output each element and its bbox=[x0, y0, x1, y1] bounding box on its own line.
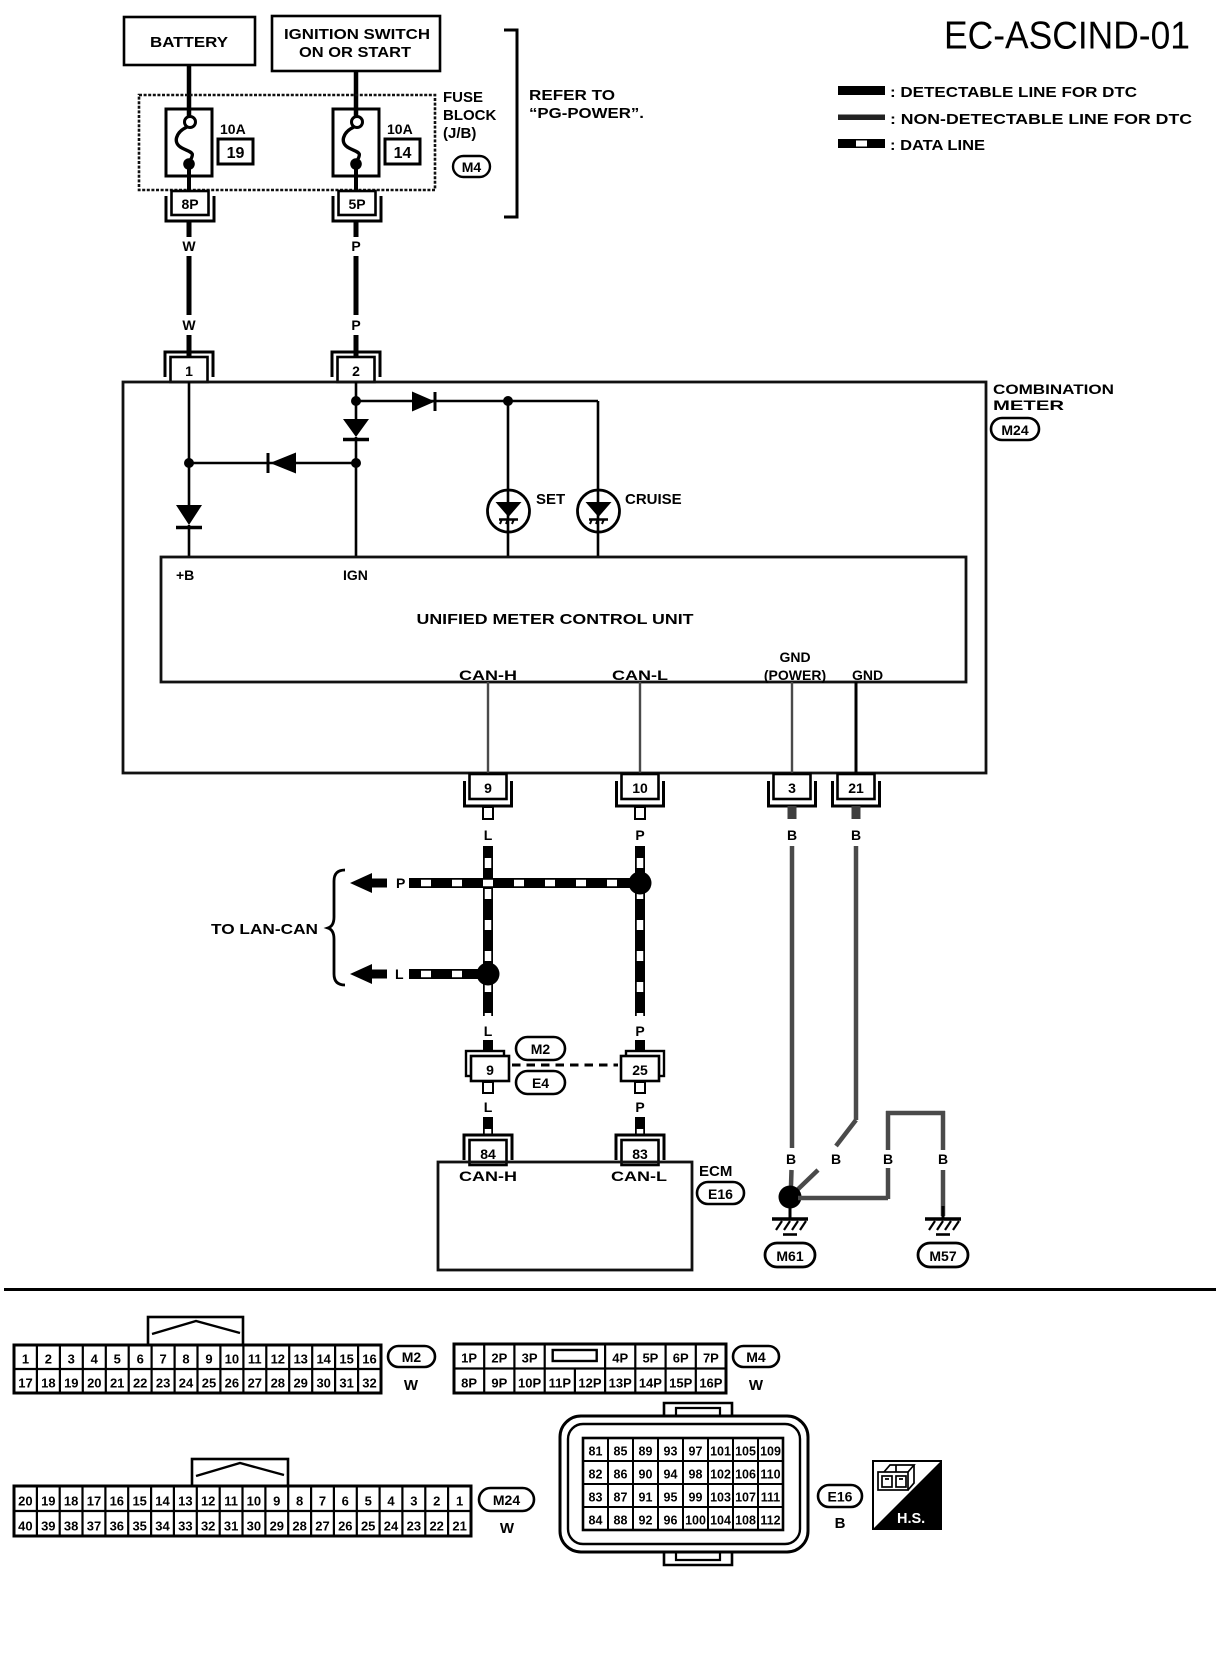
connector terminal 84 bbox=[464, 1135, 512, 1160]
ground symbol M61 bbox=[789, 1206, 792, 1218]
node junction IGN top bbox=[351, 396, 361, 406]
svg-text:40: 40 bbox=[18, 1519, 32, 1534]
diode D2 left-pointing bbox=[270, 453, 296, 474]
connector terminal 83 bbox=[616, 1135, 664, 1160]
connector E16 top tab bbox=[664, 1403, 732, 1416]
svg-text:18: 18 bbox=[64, 1494, 78, 1509]
svg-text:BLOCK: BLOCK bbox=[443, 107, 496, 124]
svg-text:14: 14 bbox=[316, 1352, 331, 1367]
wire P from fuse block to combination meter bbox=[354, 221, 359, 237]
legend: detectable line swatch bbox=[838, 86, 885, 95]
svg-text:11: 11 bbox=[224, 1494, 238, 1509]
node junction SET branch bbox=[503, 396, 513, 406]
svg-text:B: B bbox=[835, 1515, 846, 1532]
svg-text:6: 6 bbox=[137, 1352, 144, 1367]
svg-text:10: 10 bbox=[225, 1352, 239, 1367]
svg-text:92: 92 bbox=[639, 1514, 653, 1528]
svg-text:25: 25 bbox=[632, 1062, 648, 1078]
connector pin 9 of combination meter bbox=[470, 774, 507, 799]
connector terminal 5P bbox=[339, 191, 376, 215]
svg-text:101: 101 bbox=[710, 1445, 731, 1459]
svg-text:IGNITION SWITCH: IGNITION SWITCH bbox=[284, 26, 430, 43]
svg-text:106: 106 bbox=[735, 1468, 756, 1482]
M4 keying slot bbox=[553, 1350, 597, 1361]
connector id M4 oval bbox=[733, 1346, 779, 1367]
svg-text:1: 1 bbox=[456, 1494, 463, 1509]
svg-text:3: 3 bbox=[410, 1494, 417, 1509]
svg-text:REFER TO: REFER TO bbox=[529, 87, 615, 104]
arrow to LAN-CAN (P) bbox=[350, 873, 387, 893]
svg-text:: DETECTABLE LINE FOR DTC: : DETECTABLE LINE FOR DTC bbox=[890, 84, 1137, 101]
svg-text:13: 13 bbox=[178, 1494, 192, 1509]
combination meter box bbox=[123, 382, 986, 773]
LED indicator SET bbox=[488, 490, 530, 532]
svg-text:17: 17 bbox=[18, 1376, 32, 1391]
wire CRUISE branch vertical bbox=[597, 401, 600, 557]
svg-text:15: 15 bbox=[132, 1494, 146, 1509]
svg-text:W: W bbox=[404, 1377, 419, 1394]
svg-text:14: 14 bbox=[394, 145, 412, 162]
svg-text:(J/B): (J/B) bbox=[443, 125, 476, 142]
connector id M2 oval bbox=[516, 1037, 565, 1060]
svg-text:1: 1 bbox=[185, 363, 193, 379]
svg-text:7P: 7P bbox=[703, 1351, 719, 1366]
svg-text:105: 105 bbox=[735, 1445, 756, 1459]
svg-text:CAN-H: CAN-H bbox=[459, 1168, 517, 1184]
wire horizontal IGN to CRUISE branch bbox=[356, 400, 598, 403]
legend: non-detectable line swatch bbox=[838, 115, 885, 121]
svg-text:32: 32 bbox=[362, 1376, 376, 1391]
diode D4 down on IGN bbox=[343, 419, 369, 437]
svg-text:99: 99 bbox=[689, 1491, 703, 1505]
wire B from pin 3 to ground junction bbox=[790, 846, 795, 1148]
terminal stub below pin 21 bbox=[852, 806, 861, 819]
svg-text:84: 84 bbox=[480, 1146, 496, 1162]
svg-text:E16: E16 bbox=[828, 1489, 853, 1505]
svg-text:83: 83 bbox=[589, 1491, 603, 1505]
svg-text:3: 3 bbox=[68, 1352, 75, 1367]
svg-text:L: L bbox=[484, 1023, 493, 1039]
wire GND to pin 21 bbox=[855, 682, 858, 774]
svg-text:30: 30 bbox=[247, 1519, 261, 1534]
svg-text:17: 17 bbox=[87, 1494, 101, 1509]
svg-text:29: 29 bbox=[270, 1519, 284, 1534]
connector id E16 oval bbox=[697, 1182, 744, 1204]
svg-text:24: 24 bbox=[179, 1376, 194, 1391]
svg-text:2: 2 bbox=[352, 363, 360, 379]
connector E16 housing outer bbox=[560, 1416, 808, 1552]
svg-text:10: 10 bbox=[632, 780, 648, 796]
svg-text:SET: SET bbox=[536, 491, 565, 508]
battery box bbox=[124, 17, 255, 65]
diode D3 down on +B bbox=[176, 505, 202, 525]
svg-text:29: 29 bbox=[293, 1376, 307, 1391]
svg-text:ON OR START: ON OR START bbox=[299, 44, 411, 61]
svg-text:CAN-L: CAN-L bbox=[611, 1168, 668, 1184]
svg-text:2: 2 bbox=[45, 1352, 52, 1367]
svg-text:111: 111 bbox=[761, 1491, 781, 1505]
connector id M24 oval bbox=[479, 1488, 534, 1511]
svg-text:100: 100 bbox=[685, 1514, 706, 1528]
node ground junction bbox=[779, 1186, 802, 1209]
svg-text:81: 81 bbox=[589, 1445, 603, 1459]
svg-text:11P: 11P bbox=[549, 1376, 572, 1391]
svg-text:94: 94 bbox=[664, 1468, 678, 1482]
bracket refer to PG-POWER bbox=[504, 30, 517, 217]
svg-text:97: 97 bbox=[689, 1445, 703, 1459]
svg-text:31: 31 bbox=[224, 1519, 238, 1534]
svg-text:8: 8 bbox=[182, 1352, 189, 1367]
svg-text:12: 12 bbox=[201, 1494, 215, 1509]
svg-text:W: W bbox=[500, 1520, 515, 1537]
svg-text:112: 112 bbox=[760, 1514, 780, 1528]
svg-text:M2: M2 bbox=[402, 1349, 422, 1365]
svg-text:15P: 15P bbox=[669, 1376, 692, 1391]
ground id M61 oval bbox=[765, 1243, 815, 1267]
svg-text:38: 38 bbox=[64, 1519, 78, 1534]
fuse number box 19 bbox=[218, 139, 253, 164]
svg-text:24: 24 bbox=[384, 1519, 399, 1534]
svg-text:12: 12 bbox=[271, 1352, 285, 1367]
svg-text:B: B bbox=[787, 827, 797, 843]
svg-text:COMBINATION: COMBINATION bbox=[993, 381, 1114, 397]
svg-text:FUSE: FUSE bbox=[443, 89, 483, 106]
connector M4 pin numbers bbox=[461, 1351, 723, 1391]
connector terminal 2 bbox=[332, 352, 380, 377]
svg-text:L: L bbox=[395, 966, 404, 982]
legend: data line swatch bbox=[838, 139, 885, 148]
svg-text:87: 87 bbox=[614, 1491, 628, 1505]
connector terminal 8P bbox=[172, 191, 209, 215]
connector M24 keying tab bbox=[192, 1459, 288, 1486]
terminal stub above junction 25 bbox=[635, 1040, 645, 1051]
svg-text:10P: 10P bbox=[518, 1376, 541, 1391]
terminal stub below pin 9 bbox=[483, 807, 493, 819]
svg-text:1: 1 bbox=[22, 1352, 29, 1367]
node junction CAN-H / LAN L line bbox=[477, 963, 500, 986]
connector id E16 oval bbox=[818, 1485, 862, 1507]
connector id E4 oval bbox=[516, 1071, 565, 1094]
svg-text:5P: 5P bbox=[348, 196, 365, 212]
connector pin 3 of combination meter bbox=[774, 774, 811, 799]
svg-text:32: 32 bbox=[201, 1519, 215, 1534]
svg-text:IGN: IGN bbox=[343, 567, 368, 583]
svg-text:E4: E4 bbox=[532, 1075, 549, 1091]
svg-text:16: 16 bbox=[362, 1352, 376, 1367]
fuse number box 14 bbox=[385, 139, 420, 164]
svg-text:98: 98 bbox=[689, 1468, 703, 1482]
connector pin 21 of combination meter bbox=[838, 774, 875, 799]
svg-text:M4: M4 bbox=[462, 159, 482, 175]
svg-text:2: 2 bbox=[433, 1494, 440, 1509]
data line TO LAN-CAN P horizontal bbox=[409, 878, 640, 888]
svg-text:107: 107 bbox=[735, 1491, 756, 1505]
svg-text:P: P bbox=[351, 317, 360, 333]
wire SET branch vertical bbox=[507, 401, 510, 557]
connector E16 pin grid bbox=[583, 1438, 783, 1530]
svg-text:21: 21 bbox=[848, 780, 864, 796]
fuse 14 element bbox=[352, 117, 363, 128]
svg-text:+B: +B bbox=[176, 567, 194, 583]
wire +B branch bbox=[188, 382, 191, 505]
svg-text:3P: 3P bbox=[522, 1351, 538, 1366]
svg-text:H.S.: H.S. bbox=[897, 1511, 925, 1527]
svg-text:89: 89 bbox=[639, 1445, 653, 1459]
svg-text:19: 19 bbox=[227, 145, 245, 162]
ground symbol M57 bbox=[942, 1206, 945, 1218]
connector id M24 oval bbox=[991, 418, 1039, 440]
svg-text:21: 21 bbox=[452, 1519, 466, 1534]
svg-text:16P: 16P bbox=[699, 1376, 722, 1391]
svg-text:M24: M24 bbox=[1001, 422, 1028, 438]
svg-text:88: 88 bbox=[614, 1514, 628, 1528]
svg-text:P: P bbox=[635, 1099, 644, 1115]
svg-text:B: B bbox=[938, 1151, 948, 1167]
svg-text:5: 5 bbox=[365, 1494, 372, 1509]
svg-text:23: 23 bbox=[407, 1519, 421, 1534]
svg-text:37: 37 bbox=[87, 1519, 101, 1534]
fuse block (J/B) dashed box bbox=[139, 95, 435, 190]
svg-text:E16: E16 bbox=[708, 1186, 733, 1202]
svg-text:P: P bbox=[635, 827, 644, 843]
svg-text:104: 104 bbox=[710, 1514, 731, 1528]
svg-text:12P: 12P bbox=[578, 1376, 601, 1391]
svg-text:30: 30 bbox=[316, 1376, 330, 1391]
svg-text:18: 18 bbox=[41, 1376, 55, 1391]
data line CAN-H vertical upper bbox=[483, 846, 493, 1016]
svg-text:91: 91 bbox=[639, 1491, 653, 1505]
svg-text:W: W bbox=[749, 1377, 764, 1394]
svg-text:39: 39 bbox=[41, 1519, 55, 1534]
svg-text:4P: 4P bbox=[612, 1351, 628, 1366]
svg-text:19: 19 bbox=[41, 1494, 55, 1509]
data line TO LAN-CAN L horizontal bbox=[409, 969, 488, 979]
svg-text:20: 20 bbox=[87, 1376, 101, 1391]
svg-text:W: W bbox=[182, 238, 196, 254]
svg-text:EC-ASCIND-01: EC-ASCIND-01 bbox=[944, 15, 1190, 58]
svg-text:9: 9 bbox=[486, 1062, 494, 1078]
svg-text:26: 26 bbox=[338, 1519, 352, 1534]
terminal stub below junction 25 bbox=[635, 1082, 645, 1093]
connector M4 pin grid bbox=[454, 1344, 726, 1393]
wire B from pin 21 diagonal bbox=[854, 846, 859, 1120]
svg-text:“PG-POWER”.: “PG-POWER”. bbox=[529, 105, 644, 122]
wire CAN-L to pin 10 bbox=[639, 682, 641, 774]
svg-text:10A: 10A bbox=[220, 121, 246, 137]
data line CAN-H to ECM bbox=[483, 1117, 493, 1136]
wire horizontal +B to IGN diode row bbox=[189, 462, 356, 465]
data line CAN-L to ECM bbox=[635, 1117, 645, 1136]
ignition switch box bbox=[272, 16, 440, 71]
svg-text:ECM: ECM bbox=[699, 1163, 732, 1180]
fuse 14 box bbox=[333, 109, 379, 176]
svg-text:13P: 13P bbox=[609, 1376, 632, 1391]
svg-text:90: 90 bbox=[639, 1468, 653, 1482]
svg-text:20: 20 bbox=[18, 1494, 32, 1509]
terminal stub below pin 3 bbox=[788, 806, 797, 819]
svg-text:6P: 6P bbox=[673, 1351, 689, 1366]
svg-text:82: 82 bbox=[589, 1468, 603, 1482]
node junction +B / diode row bbox=[184, 458, 194, 468]
ECM box bbox=[438, 1162, 692, 1270]
svg-text:: NON-DETECTABLE LINE FOR DTC: : NON-DETECTABLE LINE FOR DTC bbox=[890, 111, 1192, 128]
connector E16 pin numbers 81-112 bbox=[589, 1445, 781, 1528]
svg-text:P: P bbox=[396, 875, 405, 891]
svg-text:96: 96 bbox=[664, 1514, 678, 1528]
svg-text:21: 21 bbox=[110, 1376, 124, 1391]
svg-text:2P: 2P bbox=[491, 1351, 507, 1366]
svg-text:10A: 10A bbox=[387, 121, 413, 137]
svg-text:4: 4 bbox=[91, 1352, 99, 1367]
separator line bbox=[4, 1288, 1216, 1291]
svg-text:: DATA LINE: : DATA LINE bbox=[890, 137, 985, 154]
wire from junction to M57 branch bbox=[798, 1196, 888, 1201]
svg-text:P: P bbox=[635, 1023, 644, 1039]
connector pin 10 of combination meter bbox=[622, 774, 659, 799]
junction connector 25 (M2/E4) bbox=[626, 1051, 664, 1076]
svg-text:28: 28 bbox=[271, 1376, 285, 1391]
connector M2 pin numbers 1-32 bbox=[18, 1352, 376, 1391]
svg-text:9: 9 bbox=[273, 1494, 280, 1509]
svg-text:13: 13 bbox=[293, 1352, 307, 1367]
svg-text:TO LAN-CAN: TO LAN-CAN bbox=[211, 921, 318, 938]
wire CAN-H to pin 9 bbox=[487, 682, 489, 774]
H.S. hand symbol icon bbox=[873, 1461, 941, 1529]
svg-text:8: 8 bbox=[296, 1494, 303, 1509]
svg-text:110: 110 bbox=[760, 1468, 780, 1482]
svg-text:CAN-H: CAN-H bbox=[459, 667, 517, 683]
svg-text:9: 9 bbox=[484, 780, 492, 796]
wire battery to fuse bbox=[187, 65, 192, 117]
svg-text:3: 3 bbox=[788, 780, 796, 796]
svg-text:27: 27 bbox=[248, 1376, 262, 1391]
connector id M4 oval bbox=[453, 156, 490, 177]
svg-text:CRUISE: CRUISE bbox=[625, 491, 682, 508]
svg-text:14: 14 bbox=[155, 1494, 170, 1509]
ground id M57 oval bbox=[918, 1243, 968, 1267]
svg-text:UNIFIED METER CONTROL UNIT: UNIFIED METER CONTROL UNIT bbox=[417, 611, 694, 628]
connector id M2 oval bbox=[388, 1346, 435, 1367]
svg-text:M61: M61 bbox=[776, 1248, 803, 1264]
svg-text:27: 27 bbox=[315, 1519, 329, 1534]
svg-text:GND: GND bbox=[779, 649, 810, 665]
svg-text:19: 19 bbox=[64, 1376, 78, 1391]
svg-text:26: 26 bbox=[225, 1376, 239, 1391]
svg-text:CAN-L: CAN-L bbox=[612, 667, 669, 683]
junction connector 9 (M2/E4) bbox=[466, 1051, 504, 1076]
svg-text:11: 11 bbox=[248, 1352, 262, 1367]
diode D1 right-pointing bbox=[412, 392, 435, 412]
svg-text:5: 5 bbox=[114, 1352, 121, 1367]
svg-text:22: 22 bbox=[429, 1519, 443, 1534]
unified meter control unit box U1 bbox=[161, 557, 966, 682]
node junction IGN mid bbox=[351, 458, 361, 468]
svg-text:86: 86 bbox=[614, 1468, 628, 1482]
svg-text:33: 33 bbox=[178, 1519, 192, 1534]
svg-text:34: 34 bbox=[155, 1519, 170, 1534]
svg-text:4: 4 bbox=[387, 1494, 395, 1509]
svg-text:9: 9 bbox=[205, 1352, 212, 1367]
connector M2 keying tab bbox=[148, 1317, 243, 1345]
svg-text:28: 28 bbox=[292, 1519, 306, 1534]
svg-text:B: B bbox=[786, 1151, 796, 1167]
svg-text:M57: M57 bbox=[929, 1248, 956, 1264]
svg-text:L: L bbox=[484, 827, 493, 843]
wire ignition to fuse bbox=[354, 71, 359, 117]
wire W from fuse block to combination meter bbox=[187, 221, 192, 237]
dashed link M2/E4 bbox=[512, 1064, 618, 1067]
svg-text:10: 10 bbox=[247, 1494, 261, 1509]
node junction CAN-L / LAN P line bbox=[629, 872, 652, 895]
svg-text:B: B bbox=[851, 827, 861, 843]
svg-text:P: P bbox=[351, 238, 360, 254]
svg-text:31: 31 bbox=[339, 1376, 353, 1391]
svg-text:BATTERY: BATTERY bbox=[150, 34, 228, 51]
connector M24 pin grid bbox=[14, 1486, 471, 1536]
brace for TO LAN-CAN bbox=[328, 870, 345, 985]
arrow to LAN-CAN (L) bbox=[350, 964, 387, 984]
svg-text:93: 93 bbox=[664, 1445, 678, 1459]
svg-text:1P: 1P bbox=[461, 1351, 477, 1366]
svg-text:M24: M24 bbox=[493, 1492, 520, 1508]
fuse 19 element bbox=[185, 117, 196, 128]
svg-text:84: 84 bbox=[589, 1514, 603, 1528]
fuse 19 box bbox=[166, 109, 212, 176]
svg-text:9P: 9P bbox=[491, 1376, 507, 1391]
svg-text:36: 36 bbox=[110, 1519, 124, 1534]
svg-text:15: 15 bbox=[339, 1352, 353, 1367]
svg-text:108: 108 bbox=[735, 1514, 756, 1528]
svg-text:95: 95 bbox=[664, 1491, 678, 1505]
svg-text:83: 83 bbox=[632, 1146, 648, 1162]
terminal stub above junction 9 bbox=[483, 1040, 493, 1051]
svg-text:L: L bbox=[484, 1099, 493, 1115]
svg-text:102: 102 bbox=[710, 1468, 731, 1482]
connector M2 pin grid bbox=[14, 1345, 381, 1393]
data line CAN-L vertical upper bbox=[635, 846, 645, 1016]
wire IGN branch bbox=[355, 382, 358, 419]
svg-text:8P: 8P bbox=[181, 196, 198, 212]
LED indicator CRUISE bbox=[578, 490, 620, 532]
svg-text:(POWER): (POWER) bbox=[764, 667, 826, 683]
svg-text:M2: M2 bbox=[531, 1041, 551, 1057]
svg-text:7: 7 bbox=[319, 1494, 326, 1509]
svg-text:8P: 8P bbox=[461, 1376, 477, 1391]
svg-text:5P: 5P bbox=[642, 1351, 658, 1366]
connector M24 pin numbers 1-40 bbox=[18, 1494, 467, 1534]
svg-text:GND: GND bbox=[852, 667, 883, 683]
wire GND(POWER) to pin 3 bbox=[791, 682, 793, 774]
svg-text:14P: 14P bbox=[639, 1376, 662, 1391]
svg-text:6: 6 bbox=[342, 1494, 349, 1509]
svg-text:7: 7 bbox=[159, 1352, 166, 1367]
terminal stub below pin 10 bbox=[635, 807, 645, 819]
svg-text:25: 25 bbox=[202, 1376, 216, 1391]
svg-text:22: 22 bbox=[133, 1376, 147, 1391]
svg-text:35: 35 bbox=[132, 1519, 146, 1534]
svg-text:B: B bbox=[831, 1151, 841, 1167]
svg-text:W: W bbox=[182, 317, 196, 333]
svg-text:85: 85 bbox=[614, 1445, 628, 1459]
svg-text:25: 25 bbox=[361, 1519, 375, 1534]
svg-text:M4: M4 bbox=[746, 1349, 766, 1365]
svg-text:16: 16 bbox=[110, 1494, 124, 1509]
svg-text:METER: METER bbox=[993, 397, 1064, 413]
connector E16 bottom tab bbox=[664, 1552, 732, 1565]
svg-text:23: 23 bbox=[156, 1376, 170, 1391]
terminal stub below junction 9 bbox=[483, 1082, 493, 1093]
svg-text:B: B bbox=[883, 1151, 893, 1167]
